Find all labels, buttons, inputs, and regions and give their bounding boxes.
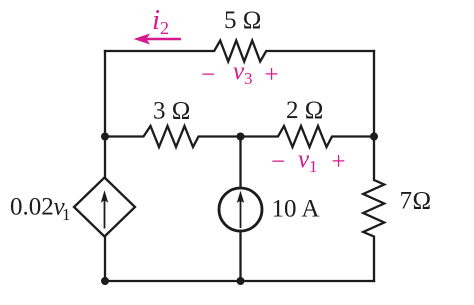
svg-text:i: i <box>152 4 160 36</box>
svg-text:3: 3 <box>244 69 253 88</box>
svg-text:−: − <box>271 149 285 176</box>
svg-text:+: + <box>265 62 279 89</box>
svg-text:1: 1 <box>309 157 318 176</box>
svg-text:1: 1 <box>62 205 71 224</box>
svg-text:+: + <box>332 149 346 176</box>
svg-text:Ω: Ω <box>413 188 432 215</box>
svg-text:−: − <box>201 62 215 89</box>
svg-text:0.02: 0.02 <box>10 194 54 221</box>
svg-text:2 Ω: 2 Ω <box>286 97 323 124</box>
svg-text:7: 7 <box>400 188 413 215</box>
svg-text:10 A: 10 A <box>272 196 320 223</box>
svg-text:5 Ω: 5 Ω <box>224 7 261 34</box>
svg-text:2: 2 <box>160 18 169 38</box>
svg-text:3 Ω: 3 Ω <box>153 98 190 125</box>
